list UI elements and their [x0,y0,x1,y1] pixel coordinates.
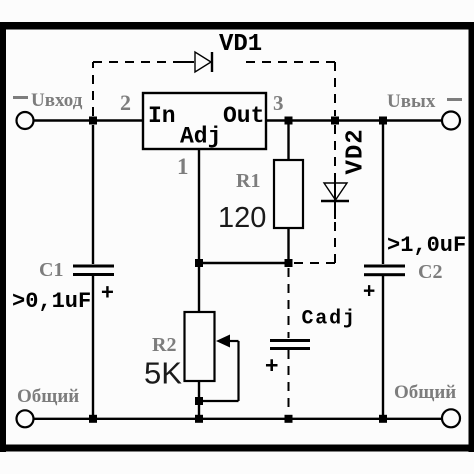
node input junction [89,117,97,125]
label Общий right [394,382,456,403]
node Adj mid junction [195,259,203,267]
capacitor C2 [364,121,405,420]
svg-text:Общий: Общий [394,382,456,403]
label >1,0uF [387,233,466,258]
diode VD1 [195,52,212,72]
svg-text:C1: C1 [39,259,63,281]
plus C1 [101,280,114,305]
svg-text:2: 2 [120,90,131,115]
svg-text:+: + [101,280,114,305]
svg-text:C2: C2 [418,261,442,283]
label Uвход [13,90,83,111]
svg-text:Out: Out [223,103,264,129]
ground terminal right (Общий) [442,409,460,427]
node ground R2 [195,415,203,423]
svg-text:Общий: Общий [17,386,79,407]
wire dashed VD2 branch (down from VD1/VD2 node) [334,125,336,178]
svg-text:Cadj: Cadj [302,308,357,331]
svg-text:+: + [265,352,278,378]
node VD1/VD2 junction [331,117,339,125]
capacitor Cadj (dashed branch) [270,268,310,414]
regulator U1 (In/Out/Adj) [143,93,266,150]
svg-text:Adj: Adj [180,124,221,150]
ground terminal left (Общий) [17,410,34,427]
node R1 bottom junction [285,259,293,267]
node R2 wiper junction [195,397,203,405]
svg-text:Uвход: Uвход [31,90,83,111]
node ground Cadj [285,415,293,423]
svg-text:+: + [363,280,375,303]
pin 2 [120,90,131,115]
svg-text:R2: R2 [152,334,176,356]
label Cadj [302,308,357,331]
svg-text:120: 120 [218,202,266,234]
pin 1 [177,154,189,179]
input terminal (Uвход) [17,112,34,129]
svg-text:VD1: VD1 [219,31,262,58]
plus Cadj [265,352,278,378]
svg-text:Uвых: Uвых [387,91,436,112]
label C1 [39,259,63,281]
svg-text:>0,1uF: >0,1uF [12,289,91,314]
label 5K [144,356,182,391]
svg-text:In: In [148,103,176,129]
label 120 [218,202,266,234]
label Общий left [17,386,79,407]
label Uвых [387,91,462,112]
wire input terminal to regulator In [34,119,143,121]
wire mid horizontal Adj to R1 bottom [199,262,289,264]
label R1 [236,170,260,192]
resistor R1 [274,160,303,228]
wire R1 bottom to mid junction [287,228,289,263]
output terminal (Uвых) [442,112,460,130]
label VD1 [219,31,262,58]
wire Adj node down to R2 [198,263,200,312]
wire Out node down to R1 [287,121,289,161]
plus C2 [363,280,375,303]
label >0,1uF [12,289,91,314]
node R1 top junction [285,117,293,125]
label VD2 (rotated) [343,128,370,174]
wire dashed top horizontal to VD1 [93,61,194,63]
node ground C2 [379,415,387,423]
wire dashed VD2 cathode down and left to mid junction [294,219,335,263]
svg-text:VD2: VD2 [343,128,370,174]
pin 3 [273,91,284,115]
capacitor C1 [73,125,114,419]
potentiometer R2 [185,312,239,401]
label C2 [418,261,442,283]
svg-text:R1: R1 [236,170,260,192]
label R2 [152,334,176,356]
diode VD2 [321,174,349,219]
svg-text:>1,0uF: >1,0uF [387,233,466,258]
wire dashed up from input junction (VD1 anode branch) [92,62,94,116]
wire regulator Out to output terminal [267,119,442,121]
svg-text:5K: 5K [144,356,182,391]
svg-text:1: 1 [177,154,189,179]
wire R2 bottom to ground [198,381,200,419]
wire Adj pin down [198,149,200,263]
wire dashed from VD1 cathode right then down to output node [246,62,335,116]
svg-text:3: 3 [273,91,284,115]
node C2 junction [379,117,387,125]
node ground C1 [89,415,97,423]
ground wire bottom [34,418,442,420]
